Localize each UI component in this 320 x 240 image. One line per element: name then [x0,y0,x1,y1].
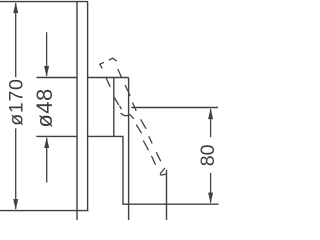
dimension text ø170 [6,78,28,125]
plate bottom edge / ø170 bottom extension line [0,210,88,212]
ø170 bottom arrowhead [13,199,18,210]
80 bottom extension line [122,203,218,205]
dimension text ø48 [32,88,57,127]
ø48 dimension line lower segment [46,138,48,183]
ø48 top extension line [37,77,78,79]
pipe inner vertical edge [122,136,124,204]
wall surface line [76,2,78,220]
ø170 dimension line upper segment [15,3,17,77]
outlet vertical line [166,170,168,220]
svg-text:ø170: ø170 [6,78,28,125]
plate top edge / ø170 top extension line [0,1,88,3]
svg-text:ø48: ø48 [32,88,57,127]
80 dimension line lower segment [210,173,212,203]
valve body right face and pipe [128,78,130,221]
80 bottom arrowhead [208,193,213,204]
80 top arrowhead [208,108,213,119]
ø48 top arrowhead [44,66,49,77]
valve body inner vertical edge [113,78,115,137]
lever handle dashed underside curve at pivot [121,113,133,118]
lever handle dashed right edge [113,58,161,161]
svg-text:80: 80 [197,144,219,166]
ø170 top arrowhead [13,2,18,13]
80 top extension line [131,107,218,109]
lever handle dashed left edge [100,64,156,164]
dimension text 80 [197,144,219,166]
valve body top face [88,77,129,79]
lever handle dashed end cap [160,168,166,175]
ø48 dimension line upper segment [46,32,48,76]
lever handle dashed head edge [100,58,113,64]
plate front face [87,2,89,211]
ø48 bottom extension line east segment [88,135,124,137]
ø48 bottom arrowhead [44,137,49,148]
ø48 bottom extension line west segment [36,135,77,137]
ø170 dimension line lower segment [15,128,17,208]
80 dimension line upper segment [210,109,212,137]
